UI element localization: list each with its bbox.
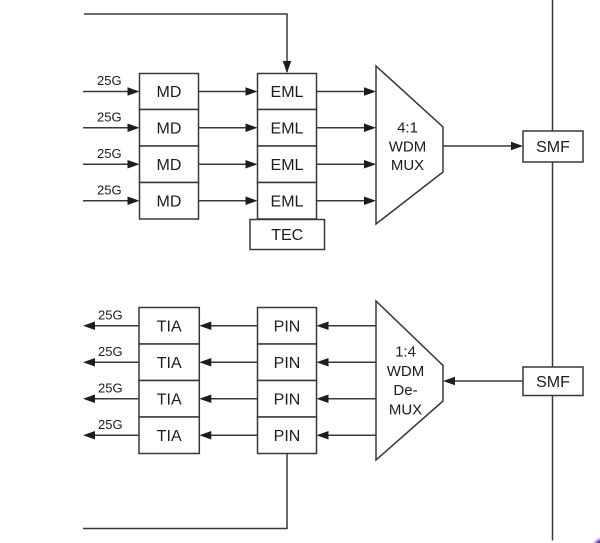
wire: EML4 to WDM MUX xyxy=(317,196,377,205)
box PIN2 xyxy=(258,344,317,381)
svg-text:EML: EML xyxy=(271,84,304,101)
svg-text:25G: 25G xyxy=(98,380,123,395)
svg-text:1:4: 1:4 xyxy=(395,344,416,361)
svg-text:WDM: WDM xyxy=(389,138,427,155)
wire: PIN3 to TIA3 xyxy=(199,394,257,403)
svg-text:25G: 25G xyxy=(98,307,123,322)
wire: PIN1 to TIA1 xyxy=(199,321,257,330)
wire: MD3 to EML3 xyxy=(199,160,258,169)
block 4:1 WDM MUX xyxy=(376,66,443,224)
svg-text:4:1: 4:1 xyxy=(397,120,418,137)
wire: MD2 to EML2 xyxy=(199,123,258,132)
box SMF (receive) xyxy=(523,367,583,396)
wire: EML3 to WDM MUX xyxy=(317,160,377,169)
svg-text:25G: 25G xyxy=(97,73,122,88)
svg-text:SMF: SMF xyxy=(536,139,570,156)
block 1:4 WDM De-MUX xyxy=(376,301,443,460)
box EML3 xyxy=(258,146,317,183)
box EML4 xyxy=(258,183,317,220)
svg-text:SMF: SMF xyxy=(536,374,570,391)
svg-text:MUX: MUX xyxy=(389,401,422,418)
wire: De-MUX to PIN1 xyxy=(317,321,377,330)
wire: SMF to De-MUX xyxy=(443,377,523,386)
svg-text:MD: MD xyxy=(157,84,182,101)
wire: De-MUX to PIN4 xyxy=(317,431,377,440)
wire: top feed into EML column xyxy=(84,14,291,73)
label 25G (rx lane 1) xyxy=(98,307,123,322)
wire: 25G output arrow lane 1 xyxy=(83,321,139,330)
label 25G (rx lane 4) xyxy=(98,417,123,432)
box PIN1 xyxy=(258,308,317,345)
wire: PIN column bottom return xyxy=(83,454,287,529)
box MD1 xyxy=(140,74,199,110)
wire: MUX to SMF xyxy=(443,142,523,151)
label 25G (tx lane 4) xyxy=(97,182,122,197)
wire: vertical SMF fiber line xyxy=(552,0,554,541)
box TIA4 xyxy=(139,417,199,454)
svg-text:EML: EML xyxy=(271,193,304,210)
wire: De-MUX to PIN2 xyxy=(317,358,377,367)
box PIN4 xyxy=(258,417,317,454)
wire: PIN4 to TIA4 xyxy=(199,431,257,440)
wire: MD1 to EML1 xyxy=(199,87,258,96)
svg-text:De-: De- xyxy=(393,382,417,399)
box TIA1 xyxy=(139,308,199,345)
wire: 25G input arrow lane 3 xyxy=(83,160,140,169)
label 25G (tx lane 1) xyxy=(97,73,122,88)
svg-text:25G: 25G xyxy=(97,146,122,161)
label 25G (rx lane 3) xyxy=(98,380,123,395)
box PIN3 xyxy=(258,381,317,418)
box MD3 xyxy=(140,146,199,183)
svg-text:25G: 25G xyxy=(97,182,122,197)
svg-text:MUX: MUX xyxy=(391,157,424,174)
svg-text:EML: EML xyxy=(271,157,304,174)
label 25G (tx lane 3) xyxy=(97,146,122,161)
box SMF (transmit) xyxy=(523,131,583,162)
svg-text:25G: 25G xyxy=(97,109,122,124)
svg-text:PIN: PIN xyxy=(274,428,301,445)
svg-text:TIA: TIA xyxy=(157,391,182,408)
svg-text:PIN: PIN xyxy=(274,318,301,335)
box TEC xyxy=(250,220,325,250)
wire: 25G input arrow lane 1 xyxy=(83,87,140,96)
svg-text:MD: MD xyxy=(157,157,182,174)
svg-text:PIN: PIN xyxy=(274,355,301,372)
wire: 25G input arrow lane 4 xyxy=(83,196,140,205)
svg-text:MD: MD xyxy=(157,193,182,210)
box EML1 xyxy=(258,74,317,110)
box TIA2 xyxy=(139,344,199,381)
wire: PIN2 to TIA2 xyxy=(199,358,257,367)
svg-text:TIA: TIA xyxy=(157,318,182,335)
box EML2 xyxy=(258,110,317,147)
svg-text:WDM: WDM xyxy=(387,363,425,380)
box TIA3 xyxy=(139,381,199,418)
label 25G (rx lane 2) xyxy=(98,344,123,359)
label 25G (tx lane 2) xyxy=(97,109,122,124)
svg-text:TIA: TIA xyxy=(157,355,182,372)
wire: 25G output arrow lane 4 xyxy=(83,431,139,440)
svg-text:TEC: TEC xyxy=(271,227,303,244)
wire: De-MUX to PIN3 xyxy=(317,394,377,403)
wire: 25G output arrow lane 2 xyxy=(83,358,139,367)
wire: EML1 to WDM MUX xyxy=(317,87,377,96)
svg-text:PIN: PIN xyxy=(274,391,301,408)
decorative purple corner mark xyxy=(594,539,600,543)
svg-text:25G: 25G xyxy=(98,417,123,432)
box MD2 xyxy=(140,110,199,147)
wire: MD4 to EML4 xyxy=(199,196,258,205)
wire: EML2 to WDM MUX xyxy=(317,123,377,132)
svg-text:25G: 25G xyxy=(98,344,123,359)
svg-text:MD: MD xyxy=(157,120,182,137)
wire: 25G output arrow lane 3 xyxy=(83,394,139,403)
wire: 25G input arrow lane 2 xyxy=(83,123,140,132)
svg-text:TIA: TIA xyxy=(157,428,182,445)
svg-text:EML: EML xyxy=(271,120,304,137)
box MD4 xyxy=(140,183,199,220)
